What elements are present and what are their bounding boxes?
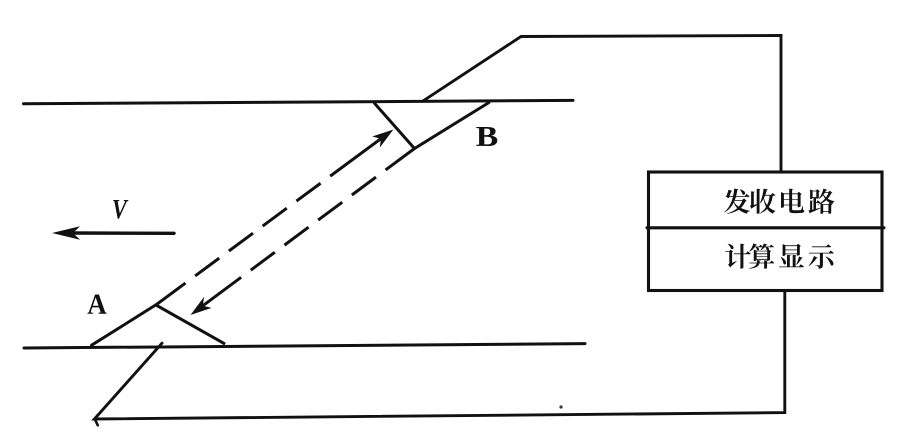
pen tail at bottom-left wire corner — [95, 420, 98, 426]
label V (flow velocity) — [113, 200, 128, 219]
box text glyph 显 (row 2) — [779, 244, 804, 268]
box text glyph 算 (row 2) — [749, 243, 774, 268]
box text glyph 示 (row 2) — [809, 244, 834, 268]
label A — [88, 295, 107, 314]
transducer B — [375, 103, 489, 149]
flow velocity arrow shaft — [70, 231, 174, 235]
top pipe wall — [24, 100, 574, 103]
box text glyph 电 (row 1) — [781, 189, 804, 214]
box text glyph 发 (row 1) — [724, 189, 750, 214]
box text glyph 路 (row 1) — [809, 189, 835, 214]
box text glyph 计 (row 2) — [725, 244, 750, 269]
scan speck — [559, 405, 562, 408]
ultrasound beam A to B (dashed) — [157, 137, 384, 305]
circuit box divider — [647, 226, 884, 229]
box text glyph 收 (row 1) — [750, 189, 776, 214]
transducer A — [92, 305, 224, 345]
wire box to A — [94, 291, 784, 420]
beam arrowhead at A — [191, 297, 212, 315]
beam arrowhead at B — [372, 130, 393, 148]
label B — [476, 127, 497, 146]
circuit box outline — [649, 172, 883, 291]
bottom pipe wall — [24, 344, 585, 348]
flow velocity arrowhead — [52, 226, 80, 240]
ultrasound beam B to A (dashed) — [203, 149, 415, 306]
wire B to circuit box — [423, 36, 782, 172]
